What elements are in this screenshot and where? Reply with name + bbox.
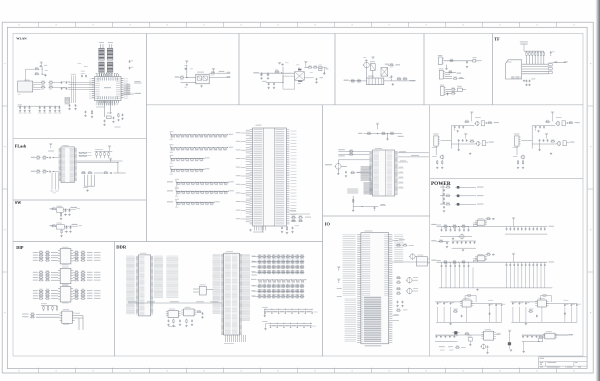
IO wires to right edge [392,239,429,262]
resistor R17 [357,79,362,82]
DIP switch D [60,309,75,325]
USB upper output 6 [486,121,499,124]
pwr flag TF [520,41,528,51]
TF ground cluster [523,78,536,85]
pwr flag FLash mid [109,158,112,161]
pwr flag USB 7 [551,112,554,122]
regulator IC U16 [295,69,305,84]
LDO U12 output caps [471,300,505,307]
resistor network row ddrB1 [251,289,304,293]
IO connector dense pin-name block [362,297,382,341]
DIP row resistor RC2a [33,294,58,297]
DIP row resistor RA2a [33,256,58,259]
FLash input row 1 [31,156,59,160]
IO left labels [343,235,356,295]
DIP row resistor RA0b [73,251,100,254]
DIP row resistor RB0a [33,270,58,273]
DDR U8 right labels [242,255,251,321]
TF card connector J5 [506,60,522,79]
POWER long ground bus [439,267,553,291]
USB section box [430,105,583,179]
DIP row resistor RC1a [33,291,58,294]
DIP D output wires [75,313,83,330]
section box 5 [424,34,493,105]
net label box4 mid2 [395,64,400,65]
DIP row resistor RA2b [73,256,100,259]
resistor network row ddrB0 [251,284,304,288]
DIP switch A [58,247,73,265]
resistor network row ddrA0 [251,254,304,258]
capacitor C12 [260,73,262,79]
title block [539,357,587,369]
wires J4 [446,90,458,94]
pwr flag USB lower 7 [545,133,548,138]
U1 bottom pin wires [96,101,115,108]
LED indicator D3 [440,202,483,212]
DIP row resistor RB1b [73,273,100,276]
pull resistor row mid5 [167,179,234,188]
resistor R14 [308,66,313,69]
CPU reset transistor Q3 [325,160,369,177]
capacitor C25 TF [550,51,555,56]
resistor R18 [389,63,394,66]
CN1 bottom right components [289,211,311,222]
CPU resistor row mid [350,171,369,174]
pwr flag regulator U10 [512,217,515,226]
DDR VREF divider IC [193,284,213,295]
LDO U12 input caps [435,302,462,305]
USB lower resistor 7 [550,140,555,143]
switch SW1 circuit [50,206,81,220]
capacitor C20 [466,61,468,68]
USB upper transistor pair 6 [474,117,487,126]
USB below-connector transistor 6 [432,146,444,169]
IO transistor Q6 circuit [396,287,418,294]
interface connector CN1 [250,125,290,226]
resistor R4 [48,85,53,88]
USB connector J6 [432,134,440,148]
regulator U10 output caps [505,226,554,234]
resistor R26 [451,92,456,95]
capacitor C4 [66,87,71,90]
ground J2 [445,65,447,70]
IO resistor pair right [396,244,414,247]
RF shield/antenna column 1 [99,42,105,72]
capacitor C10 [184,68,187,70]
LDO U13 ground bus [511,307,577,325]
pull resistor row mid7 [167,199,220,208]
net label box4 mid [385,64,389,65]
capacitor C3 [66,81,71,84]
wires Q2 to main [367,68,373,78]
LDO U12 divider [453,309,491,318]
pwr flag FLash right [108,146,111,152]
TF pull-up resistor pack [524,51,545,64]
CN1 bottom stubs [249,226,265,233]
DDR mid resistor chain row [251,279,307,283]
regulator IC U11 [475,254,487,261]
capacitor C5 [129,60,134,63]
svg-text:SW: SW [15,200,22,205]
LDO IC U12 [460,298,473,307]
resistor network row ddrA3 [251,270,304,274]
CPU IC U9 [369,148,397,196]
DIP row resistor RA1b [73,253,100,256]
resistor R1 [41,81,46,84]
border zone labels bottom [19,370,20,371]
ground U2 [200,85,202,87]
svg-text:DIP: DIP [16,245,24,250]
label R pair values [41,84,52,90]
border zone labels left and right [4,63,5,64]
LDO U13 top feedback [540,295,551,302]
wire to U1 [53,83,94,90]
IO transistor Q4 [409,253,417,260]
pull resistor row mid1 [170,131,234,140]
DDR bottom op-amp U7 [181,307,196,316]
resistor R22 [449,59,454,62]
capacitor C7 C8 mid-bottom [68,104,76,110]
wire DDR mid [252,262,257,275]
DIP row resistor RB3a [33,278,58,281]
border zone ticks bottom [39,368,557,373]
CPU GPIO label column [347,189,358,193]
CPU section box [323,105,430,216]
LDO IC U13 [535,298,548,307]
RC cluster top-left [26,65,48,81]
wire J2 out [444,60,473,62]
U1 right resistor comb [124,81,142,95]
USB bus wires 7 [521,126,556,149]
regulator U10 inductor [473,223,478,227]
section box 4 [335,34,424,105]
pwr flag USB 6 [470,112,473,122]
CPU pin hatch block 2 [364,183,373,194]
wires shield to U1 [100,72,112,76]
USB upper resistor R6a [464,120,469,123]
capacitor C6 [129,67,134,70]
connector J4 [440,85,446,96]
pwr flag box2 out [212,68,215,73]
regulator U11 rail [437,260,506,264]
TF data wires [522,64,549,74]
pwr flag USB lower 6 [464,133,467,138]
DDR IC U5 [136,253,153,316]
regulator U11 input label [431,260,441,261]
capacitor C1 [61,81,65,84]
DDR termination bus [128,301,222,303]
ferrite FB1 [473,57,482,62]
POWER section box [430,179,583,356]
IO section box [323,216,430,356]
USB lower caps 6 [458,139,468,151]
resistor R15 [313,66,318,69]
FLash bottom stubs left [50,173,59,194]
USB below-connector transistor 7 [513,146,525,169]
resistor R19 [397,77,402,80]
DIP row resistor RC3b [73,297,100,300]
border zone ticks left [2,106,7,272]
DIP row resistor RA3b [73,258,100,261]
wire WLAN rx pair [34,83,40,90]
connector J2 [438,55,444,65]
net label box4 out [410,80,416,81]
DIP row resistor RC0b [73,289,100,292]
CPU left wires row1 [338,149,369,156]
resistor pack RN5 [318,65,327,71]
regulator U10 input label [431,224,441,225]
DIP group D resistor bank [41,303,58,311]
POWER bottom IC U14 [481,329,500,340]
pwr flag regulator U11 [512,253,515,262]
USB upper caps 6 [454,126,464,133]
resistor R10 [180,76,185,79]
USB connector J7 [513,134,521,148]
CN1 left pin group wires [236,130,250,222]
below-IC RC [84,110,93,118]
pwr flag box3 out [304,61,307,67]
DIP row resistor RC0a [33,289,58,292]
FLash right resistor pack RN2 [79,152,92,156]
POWER bottom resistor R40 [465,332,470,335]
FLash section box [13,138,147,200]
border zone ticks top [39,22,557,27]
resistor R16 [350,79,355,82]
ferrite FB2 [457,86,466,92]
box4 value labels [351,57,406,83]
CN1 right labels [291,131,297,221]
transistor Q2 [363,62,370,69]
DIP row resistor RA0a [33,251,58,254]
IO connector CN2 [357,231,392,344]
DIP switch C [58,285,73,304]
resistor R20 [403,77,408,80]
net label box3 in [253,72,259,73]
pwr flag box2 [185,60,188,64]
POWER mid cap bank [452,234,476,252]
CPU top bias circuit [358,123,404,141]
svg-text:TF: TF [494,37,500,42]
TF net flag out [552,61,567,62]
svg-text:WLAN: WLAN [16,36,27,40]
WLAN section box [13,34,147,139]
pwr flag box4 [371,56,374,59]
pull resistor row mid6 [167,188,234,197]
ground box3 out [323,67,325,74]
POWER bottom-right resistors [538,335,543,342]
transformer T1 [367,76,384,85]
section box 3 [239,34,335,105]
POWER mid pwr flag [508,330,512,352]
capacitor C2 [61,87,65,90]
USB upper caps 7 [535,126,545,133]
net stub out2 [226,76,230,77]
DIP row resistor RB2a [33,276,58,279]
IO relay box [416,255,429,266]
regulator U11 input caps [441,262,470,267]
DIP row resistor RB2b [73,276,100,279]
switch SW2 circuit [50,223,83,237]
POWER bottom transistor Q8 [480,344,488,354]
DDR bottom passives [167,310,203,327]
wire box4 mid [388,64,389,66]
svg-text:FLash: FLash [15,144,27,149]
LDO U12 top feedback [465,295,476,302]
wire box4 main [349,80,415,82]
DDR IC U8 [221,251,242,335]
POWER bottom diode D5 [453,331,460,334]
dual FET U3 [370,61,375,70]
capacitor C18 [391,75,393,81]
resistor network row ddrA2 [251,265,304,269]
USB upper transistor pair 7 [555,117,568,126]
resistor R3 [41,85,46,88]
WLAN connector J1 [18,80,35,95]
IO right caps [392,301,407,321]
CPU pin hatch block 1 [361,166,371,180]
DDR capacitor row 2 [262,321,316,330]
FLash row3 components [81,163,126,174]
FLash IC U4 [59,145,77,183]
FLash bus wires right [77,160,123,163]
pull resistor row mid3 [170,155,210,164]
USB bus wires 6 [441,126,476,149]
resistor R11 [211,71,216,74]
TF section box [493,34,584,105]
USB lower resistor 6 [470,140,475,143]
DIP row resistor RB1a [33,273,58,276]
resistor R24 [453,77,458,80]
ground box4 [392,83,394,85]
net stub J3b [459,77,465,78]
middle interface section box [147,105,323,242]
IC U2 load switch [196,72,209,84]
wire box2 main [181,65,196,83]
USB lower transistor pair 6 [469,141,494,155]
regulator U10 rail [437,225,506,229]
DIP D input rows [22,313,60,318]
decoupling capacitor bank [17,104,61,113]
crystal circuit Y1 [103,101,123,128]
wire box3 up [298,67,300,71]
DIP row resistor RA3a [33,258,58,261]
bridge diode D2 [381,68,388,77]
net label box4 in [344,80,349,81]
regulator U11 feedback RC [485,253,495,256]
LDO U12 ground bus [436,307,502,325]
CN1 bottom cluster [281,225,299,234]
box3 lower out wire [304,77,323,83]
USB lower caps 7 [538,139,548,151]
capacitor C14 top [281,64,284,66]
pull resistor row mid2 [170,144,234,153]
USB upper resistor R7a [545,120,550,123]
POWER bottom row2 [439,346,466,351]
feedback wire loop [281,72,295,89]
DDR U5 right net labels col1 [154,256,163,297]
USB upper output 7 [567,121,580,124]
DIP row resistor RC1b [73,291,100,294]
section box 2 [147,34,240,105]
border zone ticks right [588,106,593,272]
IO right labels [394,235,403,262]
net label IN [175,76,180,77]
POWER input circuit 2 [431,240,449,248]
svg-text:IO: IO [325,222,331,227]
IO left lower labels [345,299,357,341]
DDR capacitor row 1 [262,307,317,317]
DDR U8 bottom stubs [224,335,246,344]
WLAN label fog near IC [78,63,88,78]
regulator U10 feedback RC [485,217,495,220]
net label box3 out [304,68,328,70]
wires J3 [445,72,456,78]
connector J3 [439,68,445,79]
DIP section box [13,242,114,357]
DIP row resistor RC2b [73,294,100,297]
regulator IC U10 [475,218,487,225]
WLAN main IC U1 [89,73,128,104]
row2 caps [262,81,275,89]
capacitor C13 [267,73,269,79]
IO bottom label [365,345,382,346]
wire box3 main [260,67,295,83]
POWER bottom sub circuit [468,336,473,346]
DDR bottom op-amp U6 [166,309,181,318]
IO left power flags [337,266,342,297]
LDO U13 output caps [546,300,580,307]
DDR U8 left labels [213,255,221,314]
regulator U11 inductor [473,258,478,262]
box3 value labels [260,62,323,75]
SW section box [13,200,147,242]
POWER bottom-right IC U15 [543,331,573,339]
CPU bottom circuit [352,196,386,212]
FLash bottom cluster [83,175,95,192]
pwr flag box3 [278,62,281,64]
border zone labels top [19,24,20,25]
DIP row resistor RA1a [33,253,58,256]
FLash input row 2 [31,170,59,174]
pwr flag WLAN [40,62,43,67]
resistor R23 [448,70,453,73]
WLAN bias vertical wires [71,74,77,103]
svg-text:DDR: DDR [116,245,127,250]
box2 value labels [180,65,214,87]
regulator U11 output caps [505,261,554,266]
FLash resistor array RN3 [95,149,113,158]
resistor network row ddrB2 [251,294,304,298]
DDR section box [114,242,322,357]
resistor R2 [48,81,53,84]
net label J3 [457,73,462,74]
CPU right wires [398,151,429,188]
DDR U5 right net labels col2 [166,256,178,297]
net stub right of U1 [121,93,141,94]
DIP row resistor RC3a [33,297,58,300]
IO transistor Q5 circuit [396,276,418,284]
LDO U13 divider [528,309,566,318]
DIP row resistor RB0b [73,270,100,273]
RF shield/antenna column 2 [107,42,113,72]
LED indicator D2 [440,194,483,204]
DDR U5 left net labels [126,256,135,314]
resistor R25 [451,88,456,91]
DIP row resistor RB3b [73,278,100,281]
ground J4 [446,92,448,95]
USB lower transistor pair 7 [550,141,575,155]
WLAN mid component FB3 [65,98,70,105]
